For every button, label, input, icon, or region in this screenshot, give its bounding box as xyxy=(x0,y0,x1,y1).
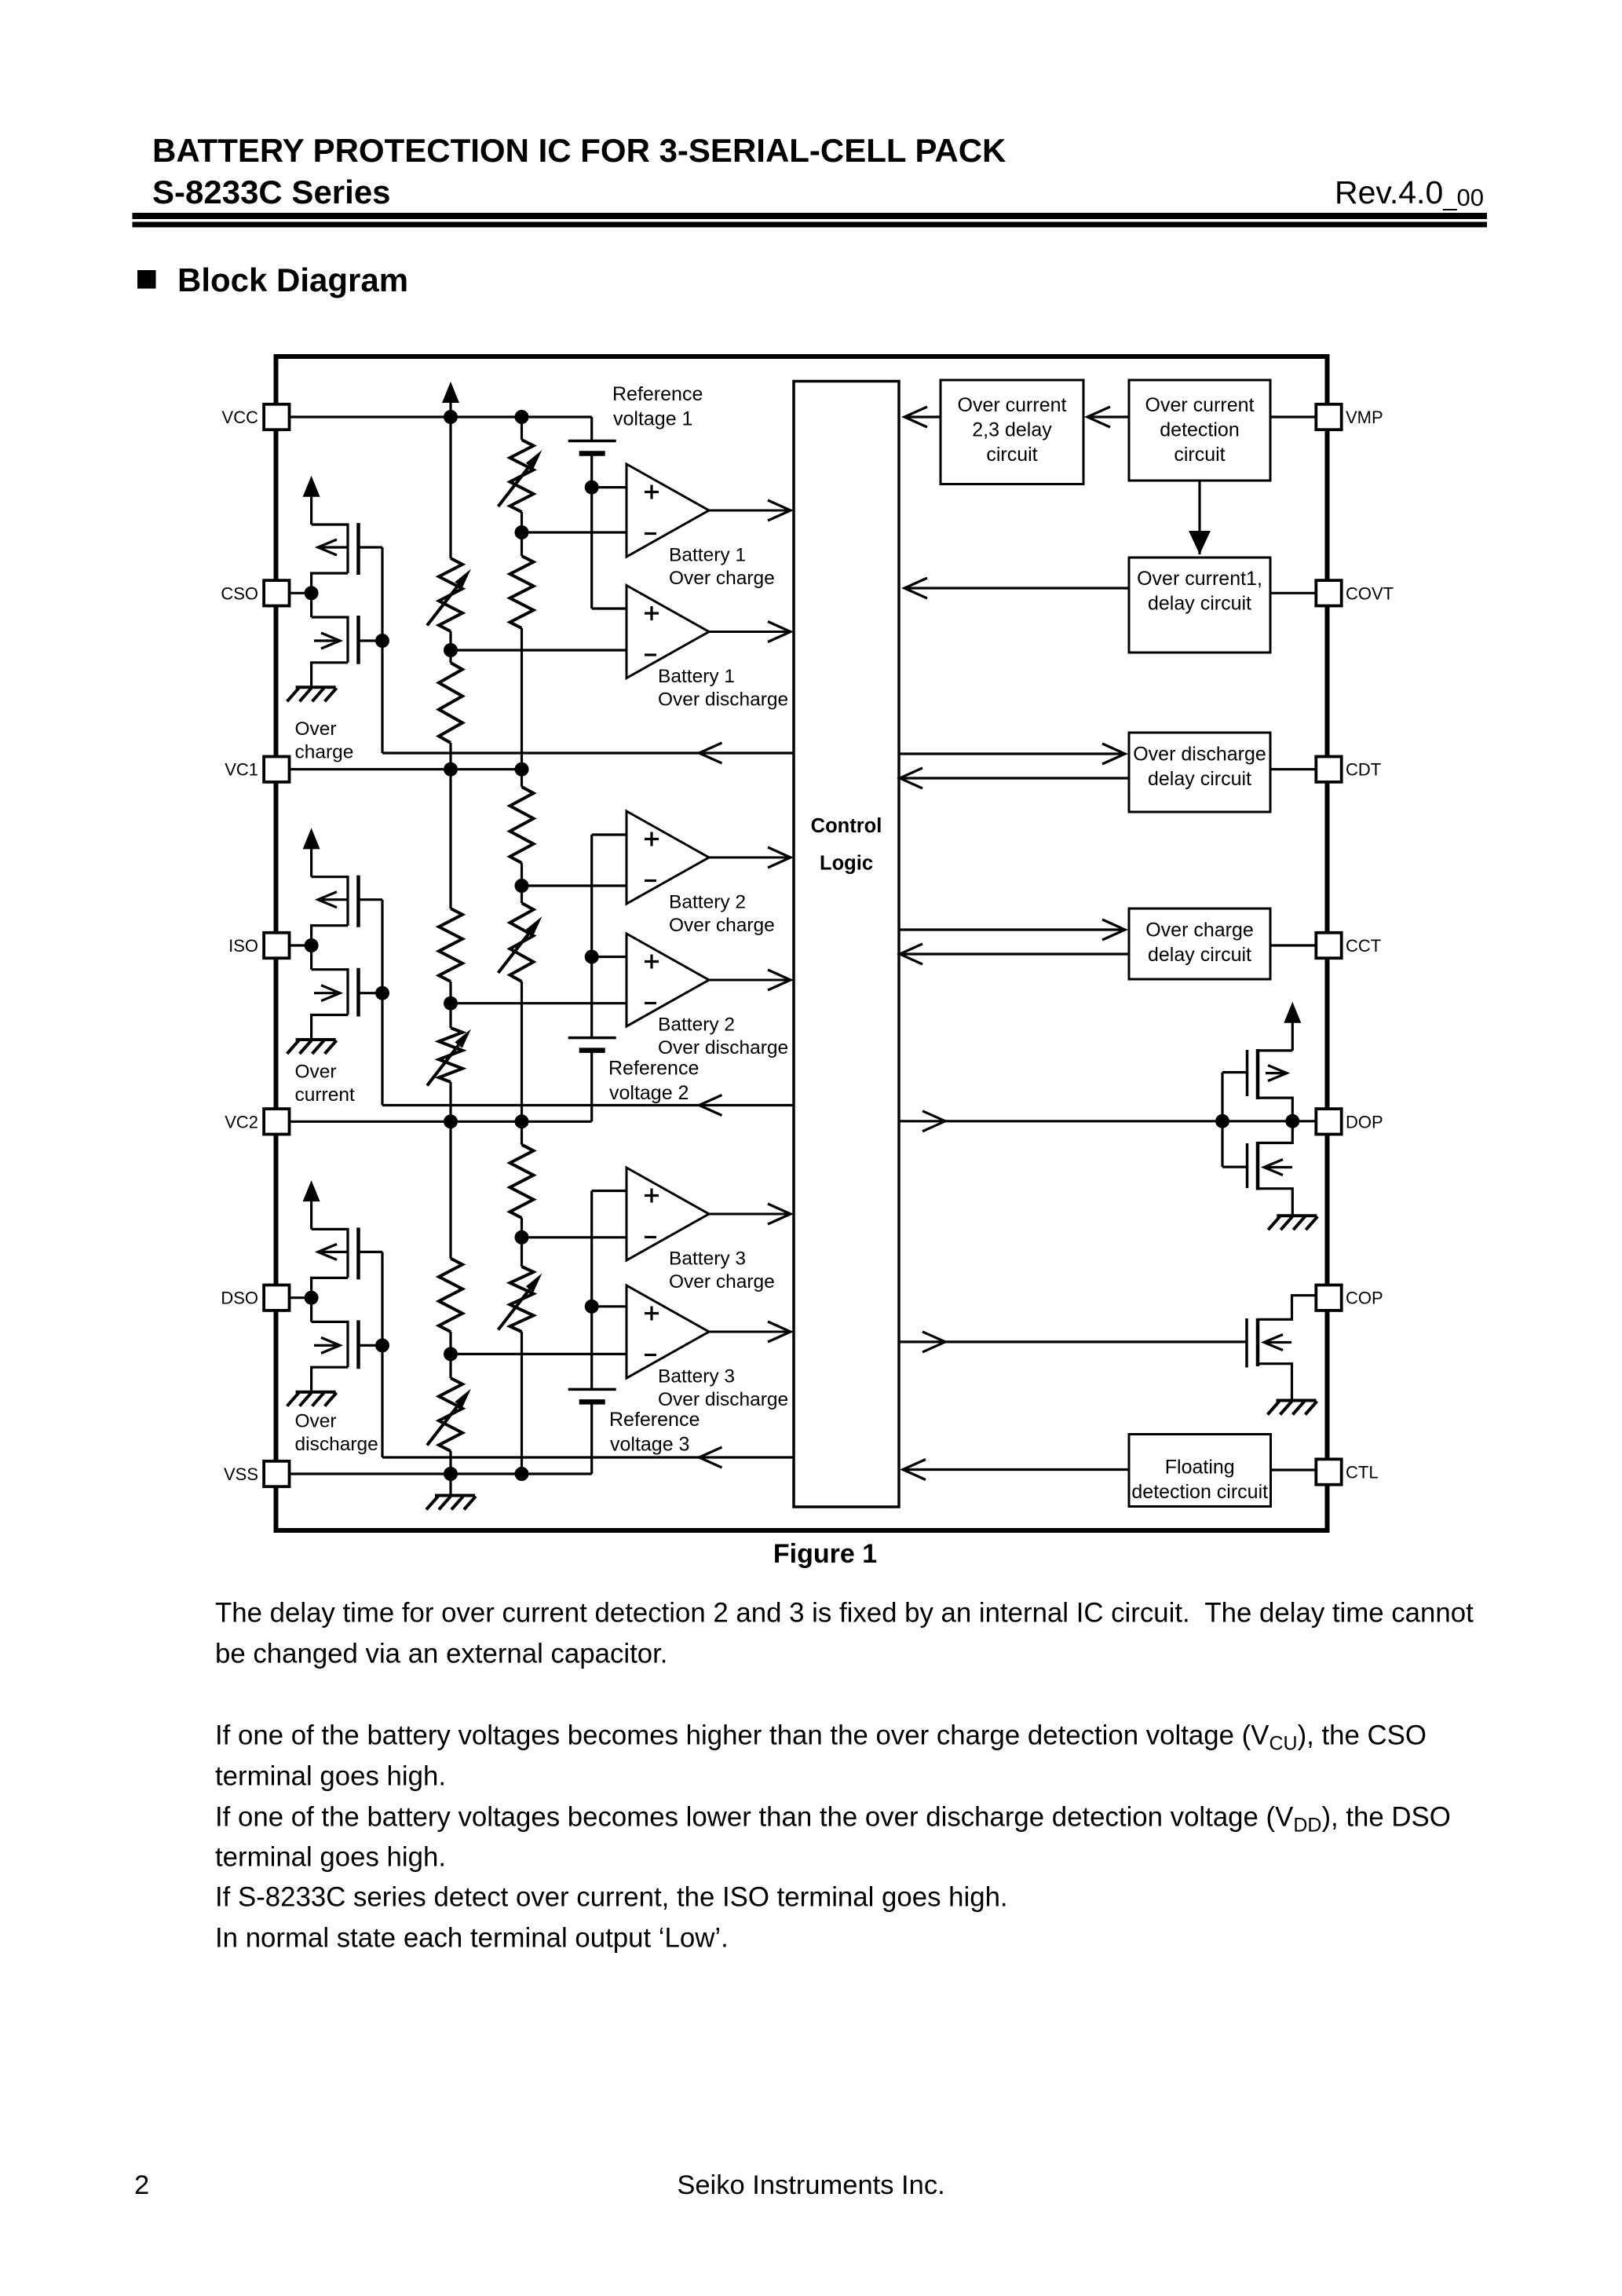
svg-text:Seiko Instruments Inc.: Seiko Instruments Inc. xyxy=(677,2170,944,2200)
adjustment arrow xyxy=(427,1389,471,1446)
svg-text:Reference: Reference xyxy=(609,1409,700,1431)
junction reference 3 to op-amp 3b xyxy=(585,1300,599,1314)
svg-text:Battery 2: Battery 2 xyxy=(669,892,746,913)
wire VC2 net xyxy=(290,1121,592,1123)
transistor DSO driver P-channel xyxy=(312,1229,348,1278)
wire rail B battery 1 top xyxy=(521,417,523,440)
svg-text:VCC: VCC xyxy=(222,408,259,427)
pin CCT xyxy=(1316,933,1341,958)
svg-text:2: 2 xyxy=(134,2170,149,2200)
wire Battery 2 Over charge output to Control Logic xyxy=(709,857,791,859)
transistor DSO driver N-channel xyxy=(310,1298,312,1322)
junction rail B tap battery 3 xyxy=(515,1230,529,1245)
wire rail A battery 2 mid xyxy=(449,982,451,1028)
op-amp comparator Battery 3 Over charge xyxy=(627,1168,709,1260)
svg-text:detection: detection xyxy=(1160,419,1239,441)
ground COP driver xyxy=(1268,1401,1317,1415)
wire rail A battery 2 lower xyxy=(449,1082,451,1121)
resistor rail B battery 1 upper (adjustable) xyxy=(510,440,534,512)
op-amp comparator Battery 2 Over charge xyxy=(627,811,709,904)
svg-text:Over discharge: Over discharge xyxy=(658,689,788,711)
wire ISO driver P-ch source to supply xyxy=(310,849,312,876)
svg-text:circuit: circuit xyxy=(1174,444,1225,466)
wire rail A battery 1 upper xyxy=(449,417,451,558)
wire rail B battery 2 mid xyxy=(521,863,523,903)
svg-text:Over current: Over current xyxy=(958,394,1067,416)
svg-text:Battery 3: Battery 3 xyxy=(658,1366,735,1387)
resistor rail A battery 2 upper xyxy=(439,909,462,982)
wire COP source to ground xyxy=(1258,1364,1292,1401)
svg-text:COVT: COVT xyxy=(1346,583,1394,603)
wire reference voltage 3 rail xyxy=(590,1191,593,1390)
wire Control Logic drive to DSO driver xyxy=(382,1456,794,1458)
wire CSO driver P-ch source to supply xyxy=(310,497,312,525)
arrowhead drive to DOP xyxy=(922,1111,945,1132)
wire VMP pin to Over current detection circuit xyxy=(1270,415,1316,418)
power arrow above rail A xyxy=(442,382,459,403)
svg-text:Over charge: Over charge xyxy=(1145,919,1254,941)
svg-text:VMP: VMP xyxy=(1346,408,1383,427)
wire reference 3 to op-amp 3b + input xyxy=(592,1305,627,1307)
reference voltage source 1 xyxy=(568,441,616,454)
wire VC1 net xyxy=(290,768,522,770)
wire CCT pin to Over charge delay circuit xyxy=(1270,944,1316,946)
reference voltage source 3 xyxy=(568,1389,616,1402)
svg-text:circuit: circuit xyxy=(986,444,1037,466)
wire reference 3 to VSS net xyxy=(590,1402,593,1474)
ground DOP driver xyxy=(1268,1216,1317,1230)
svg-text:VC1: VC1 xyxy=(225,760,258,780)
svg-text:Control: Control xyxy=(811,815,882,837)
svg-text:terminal goes high.: terminal goes high. xyxy=(215,1842,446,1873)
block Over current detection circuit xyxy=(1129,380,1270,481)
junction CSO driver output node xyxy=(305,586,319,600)
svg-text:Over: Over xyxy=(295,1411,337,1432)
svg-text:The delay time for over curren: The delay time for over current detectio… xyxy=(215,1598,1474,1629)
pin VC1 xyxy=(264,757,289,782)
wire detection circuit to Over current1 delay circuit xyxy=(1198,481,1200,554)
junction rail A xyxy=(444,762,458,777)
ground CSO driver xyxy=(287,687,337,701)
wire Control Logic to Over charge delay circuit xyxy=(899,928,1125,930)
svg-text:CSO: CSO xyxy=(221,583,258,603)
junction CSO driver gates xyxy=(375,634,389,648)
svg-text:discharge: discharge xyxy=(295,1434,378,1455)
junction reference 1 to comparator inputs xyxy=(585,481,599,495)
op-amp comparator Battery 1 Over discharge xyxy=(627,586,709,678)
svg-text:BATTERY PROTECTION IC FOR 3-SE: BATTERY PROTECTION IC FOR 3-SERIAL-CELL … xyxy=(152,132,1006,169)
adjustment arrow xyxy=(499,1274,542,1330)
wire Over charge delay circuit to Control Logic xyxy=(900,952,1129,955)
wire DSO driver P-ch source to supply xyxy=(310,1201,312,1229)
wire rail B battery 2 lower xyxy=(521,982,523,1121)
resistor rail B battery 3 lower (adjustable) xyxy=(510,1267,534,1332)
wire reference 2 to op-amp 2b + input xyxy=(592,956,627,958)
svg-text:If one of the battery voltages: If one of the battery voltages becomes h… xyxy=(215,1720,1427,1755)
wire COVT pin to Over current1 delay circuit xyxy=(1270,592,1316,594)
svg-text:voltage 3: voltage 3 xyxy=(610,1434,689,1456)
svg-text:delay circuit: delay circuit xyxy=(1148,944,1251,966)
junction rail B xyxy=(515,1114,529,1128)
arrowhead into Control Logic xyxy=(903,1460,926,1480)
pin VSS xyxy=(264,1461,289,1486)
svg-text:Over charge: Over charge xyxy=(669,568,775,589)
svg-text:Figure 1: Figure 1 xyxy=(773,1539,877,1569)
svg-text:voltage 2: voltage 2 xyxy=(609,1082,689,1104)
wire pin to CSO driver node xyxy=(290,592,312,594)
block Over current 2,3 delay circuit xyxy=(941,380,1083,484)
arrowhead into Control Logic xyxy=(904,578,927,598)
wire Over current1 delay circuit to Control Logic xyxy=(904,587,1129,589)
transistor DOP N-channel xyxy=(1258,1121,1292,1143)
svg-text:Over current1,: Over current1, xyxy=(1137,568,1262,590)
wire rail B battery 1 mid xyxy=(521,512,523,556)
junction rail A tap battery 3 xyxy=(444,1347,458,1361)
junction ISO driver output node xyxy=(305,938,319,952)
wire rail A battery 2 upper xyxy=(449,770,451,909)
IC outer boundary box xyxy=(276,356,1328,1530)
power arrow DOP driver xyxy=(1284,1002,1301,1023)
arrowhead Battery 1 Over charge output xyxy=(768,500,791,521)
svg-text:Over: Over xyxy=(295,718,337,740)
junction reference 2 to op-amp 2b xyxy=(585,950,599,964)
wire reference 1 to op-amp 1b + input xyxy=(592,607,627,609)
resistor rail B battery 2 upper xyxy=(510,787,534,863)
adjustment arrow xyxy=(499,450,542,506)
pin CTL xyxy=(1316,1459,1341,1484)
junction ISO driver gates xyxy=(375,986,389,1000)
svg-text:be changed via an external cap: be changed via an external capacitor. xyxy=(215,1639,667,1669)
pin VMP xyxy=(1316,404,1341,430)
wire Battery 1 Over discharge output to Control Logic xyxy=(709,631,791,633)
wire Control Logic to DOP driver gates and pin xyxy=(899,1120,1316,1122)
arrowhead drive to CSO driver xyxy=(700,743,722,763)
arrowhead Battery 2 Over discharge output xyxy=(768,970,791,990)
arrowhead Battery 3 Over discharge output xyxy=(768,1322,791,1342)
svg-text:delay circuit: delay circuit xyxy=(1148,593,1251,615)
junction DSO driver gates xyxy=(375,1338,389,1352)
op-amp comparator Battery 2 Over discharge xyxy=(627,934,709,1026)
pin DSO xyxy=(264,1285,289,1311)
svg-text:current: current xyxy=(295,1084,355,1106)
junction DOP gates xyxy=(1215,1114,1229,1128)
arrowhead Battery 3 Over charge output xyxy=(768,1204,791,1224)
pin COP xyxy=(1316,1285,1341,1311)
wire Battery 3 Over discharge output to Control Logic xyxy=(709,1331,791,1333)
wire reference voltage 1 rail xyxy=(590,454,593,609)
svg-text:Over discharge: Over discharge xyxy=(658,1037,788,1058)
junction rail B xyxy=(515,1467,529,1481)
reference voltage source 2 xyxy=(568,1038,616,1051)
transistor CSO driver P-channel xyxy=(312,525,348,573)
svg-text:Battery 2: Battery 2 xyxy=(658,1015,735,1036)
wire 2,3 delay circuit to Control Logic xyxy=(904,415,941,418)
resistor rail B battery 3 upper xyxy=(510,1145,534,1218)
wire rail B tap to op-amp 1a - input xyxy=(522,531,627,533)
pin CDT xyxy=(1316,757,1341,782)
resistor rail A battery 3 lower (adjustable) xyxy=(439,1378,462,1451)
junction DOP output node xyxy=(1285,1114,1299,1128)
svg-text:Battery 3: Battery 3 xyxy=(669,1249,746,1270)
wire VSS net xyxy=(290,1472,592,1475)
svg-text:Over discharge: Over discharge xyxy=(658,1389,788,1410)
wire COP pin to drain xyxy=(1258,1296,1316,1320)
svg-text:Floating: Floating xyxy=(1165,1457,1235,1479)
adjustment arrow xyxy=(427,1029,471,1086)
junction DSO driver output node xyxy=(305,1291,319,1305)
wire Over discharge delay circuit to Control Logic xyxy=(900,777,1129,779)
svg-text:Over current: Over current xyxy=(1145,394,1255,416)
svg-text:CTL: CTL xyxy=(1346,1463,1379,1483)
svg-text:Over charge: Over charge xyxy=(669,1271,775,1292)
wire rail A battery 3 mid xyxy=(449,1332,451,1378)
block Over current1 delay circuit xyxy=(1129,558,1270,653)
svg-text:In normal state each terminal: In normal state each terminal output ‘Lo… xyxy=(215,1923,729,1954)
svg-text:ISO: ISO xyxy=(228,936,258,956)
wire rail B tap to op-amp 3a - input xyxy=(522,1236,627,1238)
arrowhead into Over charge delay circuit xyxy=(1102,919,1125,940)
wire rail A battery 1 lower xyxy=(449,743,451,770)
block Over charge delay circuit xyxy=(1129,909,1270,979)
adjustment arrow xyxy=(499,916,542,973)
svg-text:2,3 delay: 2,3 delay xyxy=(972,419,1052,441)
op-amp comparator Battery 3 Over discharge xyxy=(627,1285,709,1378)
wire rail B battery 3 upper xyxy=(521,1121,523,1144)
pin VCC xyxy=(264,404,289,430)
wire detection circuit to 2,3 delay circuit xyxy=(1087,415,1129,418)
wire rail A tap to op-amp 1b - input xyxy=(451,649,627,651)
transistor CSO driver N-channel xyxy=(310,593,312,617)
wire Battery 2 Over discharge output to Control Logic xyxy=(709,979,791,982)
svg-text:detection circuit: detection circuit xyxy=(1131,1481,1268,1503)
wire rail B tap to op-amp 2a - input xyxy=(522,884,627,887)
svg-text:Reference: Reference xyxy=(612,383,703,405)
svg-text:Rev.4.0_00: Rev.4.0_00 xyxy=(1335,174,1484,211)
power arrow CSO driver xyxy=(303,476,320,497)
arrowhead into 2,3 delay circuit xyxy=(1087,407,1110,427)
junction rail B tap battery 2 xyxy=(515,879,529,893)
wire CSO driver gate bus xyxy=(381,547,383,753)
svg-text:delay circuit: delay circuit xyxy=(1148,768,1251,790)
wire CTL pin to Floating detection circuit xyxy=(1271,1468,1317,1471)
op-amp comparator Battery 1 Over charge xyxy=(627,464,709,557)
svg-text:VSS: VSS xyxy=(224,1464,258,1484)
section heading bullet xyxy=(137,270,156,289)
resistor rail B battery 1 lower xyxy=(510,556,534,628)
arrowhead into Over discharge delay circuit xyxy=(1102,744,1125,764)
arrowhead down into Over current1 delay circuit xyxy=(1189,531,1211,554)
svg-text:DOP: DOP xyxy=(1346,1112,1383,1132)
arrowhead Battery 1 Over discharge output xyxy=(768,622,791,642)
arrowhead drive to ISO driver xyxy=(700,1095,722,1116)
wire pin to DSO driver node xyxy=(290,1296,312,1299)
transistor ISO driver P-channel xyxy=(312,877,348,926)
resistor rail A battery 1 lower xyxy=(439,663,462,743)
wire DSO driver gate bus xyxy=(381,1252,383,1457)
arrowhead into Control Logic xyxy=(904,407,927,427)
pin COVT xyxy=(1316,580,1341,605)
wire rail A battery 3 upper xyxy=(449,1121,451,1258)
svg-text:DSO: DSO xyxy=(221,1289,258,1308)
wire rail A tap to op-amp 3b - input xyxy=(451,1353,627,1355)
svg-text:Battery 1: Battery 1 xyxy=(658,666,735,687)
junction rail B xyxy=(515,410,529,424)
svg-text:Over: Over xyxy=(295,1062,337,1083)
junction rail A xyxy=(444,1114,458,1128)
svg-text:Over discharge: Over discharge xyxy=(1133,744,1266,766)
wire Floating detection circuit to Control Logic xyxy=(903,1468,1129,1471)
wire rail A battery 3 lower xyxy=(449,1451,451,1474)
svg-text:Block Diagram: Block Diagram xyxy=(177,261,408,298)
wire reference voltage 2 rail xyxy=(590,835,593,1038)
adjustment arrow xyxy=(427,569,471,626)
svg-text:S-8233C Series: S-8233C Series xyxy=(152,174,391,210)
svg-text:If S-8233C series detect over: If S-8233C series detect over current, t… xyxy=(215,1882,1008,1913)
wire Control Logic to COP gate xyxy=(899,1340,1247,1343)
junction rail B tap battery 1 xyxy=(515,525,529,539)
resistor rail A battery 1 upper (adjustable) xyxy=(439,558,462,631)
resistor rail A battery 3 upper xyxy=(439,1259,462,1332)
resistor rail B battery 2 lower (adjustable) xyxy=(510,903,534,982)
wire reference 2 to op-amp 2a + input xyxy=(592,833,627,835)
ground at VSS rail xyxy=(426,1496,476,1510)
wire rail A tap to op-amp 2b - input xyxy=(451,1002,627,1004)
svg-text:Reference: Reference xyxy=(608,1058,699,1080)
arrowhead drive to COP xyxy=(922,1332,945,1352)
wire rail A to VCC xyxy=(449,402,451,417)
wire VCC net xyxy=(290,415,592,418)
wire DOP P-ch source to supply xyxy=(1291,1023,1294,1051)
junction rail A tap battery 2 xyxy=(444,996,458,1011)
junction rail B xyxy=(515,762,529,777)
pin CSO xyxy=(264,580,289,605)
wire Control Logic drive to CSO driver xyxy=(382,751,794,754)
arrowhead into Control Logic xyxy=(900,768,922,788)
wire rail B battery 1 lower xyxy=(521,628,523,770)
pin DOP xyxy=(1316,1109,1341,1134)
arrowhead into Control Logic xyxy=(900,944,922,964)
wire rail B battery 2 upper xyxy=(521,770,523,787)
wire pin to ISO driver node xyxy=(290,944,312,946)
svg-text:VC2: VC2 xyxy=(225,1112,258,1132)
transistor DOP P-channel xyxy=(1258,1051,1292,1121)
junction rail A xyxy=(444,1467,458,1481)
pin VC2 xyxy=(264,1109,289,1134)
wire rail A to ground xyxy=(449,1474,451,1496)
arrowhead Battery 2 Over charge output xyxy=(768,847,791,868)
svg-text:CDT: CDT xyxy=(1346,760,1381,780)
block Over discharge delay circuit xyxy=(1129,733,1270,812)
pin ISO xyxy=(264,933,289,958)
Control Logic block xyxy=(794,382,899,1508)
resistor rail A battery 2 lower (adjustable) xyxy=(439,1028,462,1082)
wire rail B battery 3 mid xyxy=(521,1218,523,1267)
wire reference 2 to VC2 net xyxy=(590,1051,593,1122)
wire Control Logic to Over discharge delay circuit xyxy=(899,752,1125,755)
svg-text:Logic: Logic xyxy=(820,853,873,875)
svg-text:Battery 1: Battery 1 xyxy=(669,545,746,566)
header double rule xyxy=(133,213,1488,219)
wire Battery 1 Over charge output to Control Logic xyxy=(709,510,791,512)
svg-text:If one of the battery voltages: If one of the battery voltages becomes l… xyxy=(215,1802,1451,1837)
wire Battery 3 Over charge output to Control Logic xyxy=(709,1213,791,1216)
ground DSO driver xyxy=(287,1392,337,1406)
wire reference 1 to op-amp 1a + input xyxy=(592,486,627,488)
wire VCC to reference voltage 1 xyxy=(590,417,593,441)
block Floating detection circuit xyxy=(1129,1435,1271,1507)
svg-text:voltage 1: voltage 1 xyxy=(613,408,692,430)
wire ISO driver gate bus xyxy=(381,900,383,1106)
wire Control Logic drive to ISO driver xyxy=(382,1104,794,1106)
ground ISO driver xyxy=(287,1040,337,1054)
power arrow DSO driver xyxy=(303,1180,320,1201)
wire CDT pin to Over discharge delay circuit xyxy=(1270,768,1316,770)
svg-text:Over charge: Over charge xyxy=(669,915,775,936)
svg-text:COP: COP xyxy=(1346,1289,1383,1308)
svg-text:charge: charge xyxy=(295,742,354,763)
svg-text:CCT: CCT xyxy=(1346,936,1381,956)
wire rail A battery 1 mid xyxy=(449,631,451,663)
arrowhead drive to DSO driver xyxy=(700,1447,722,1468)
power arrow ISO driver xyxy=(303,828,320,849)
junction rail A tap battery 1 xyxy=(444,643,458,657)
transistor ISO driver N-channel xyxy=(310,945,312,970)
wire rail B battery 3 lower xyxy=(521,1332,523,1474)
svg-text:terminal goes high.: terminal goes high. xyxy=(215,1761,446,1792)
junction rail A xyxy=(444,410,458,424)
wire reference 3 to op-amp 3a + input xyxy=(592,1190,627,1192)
